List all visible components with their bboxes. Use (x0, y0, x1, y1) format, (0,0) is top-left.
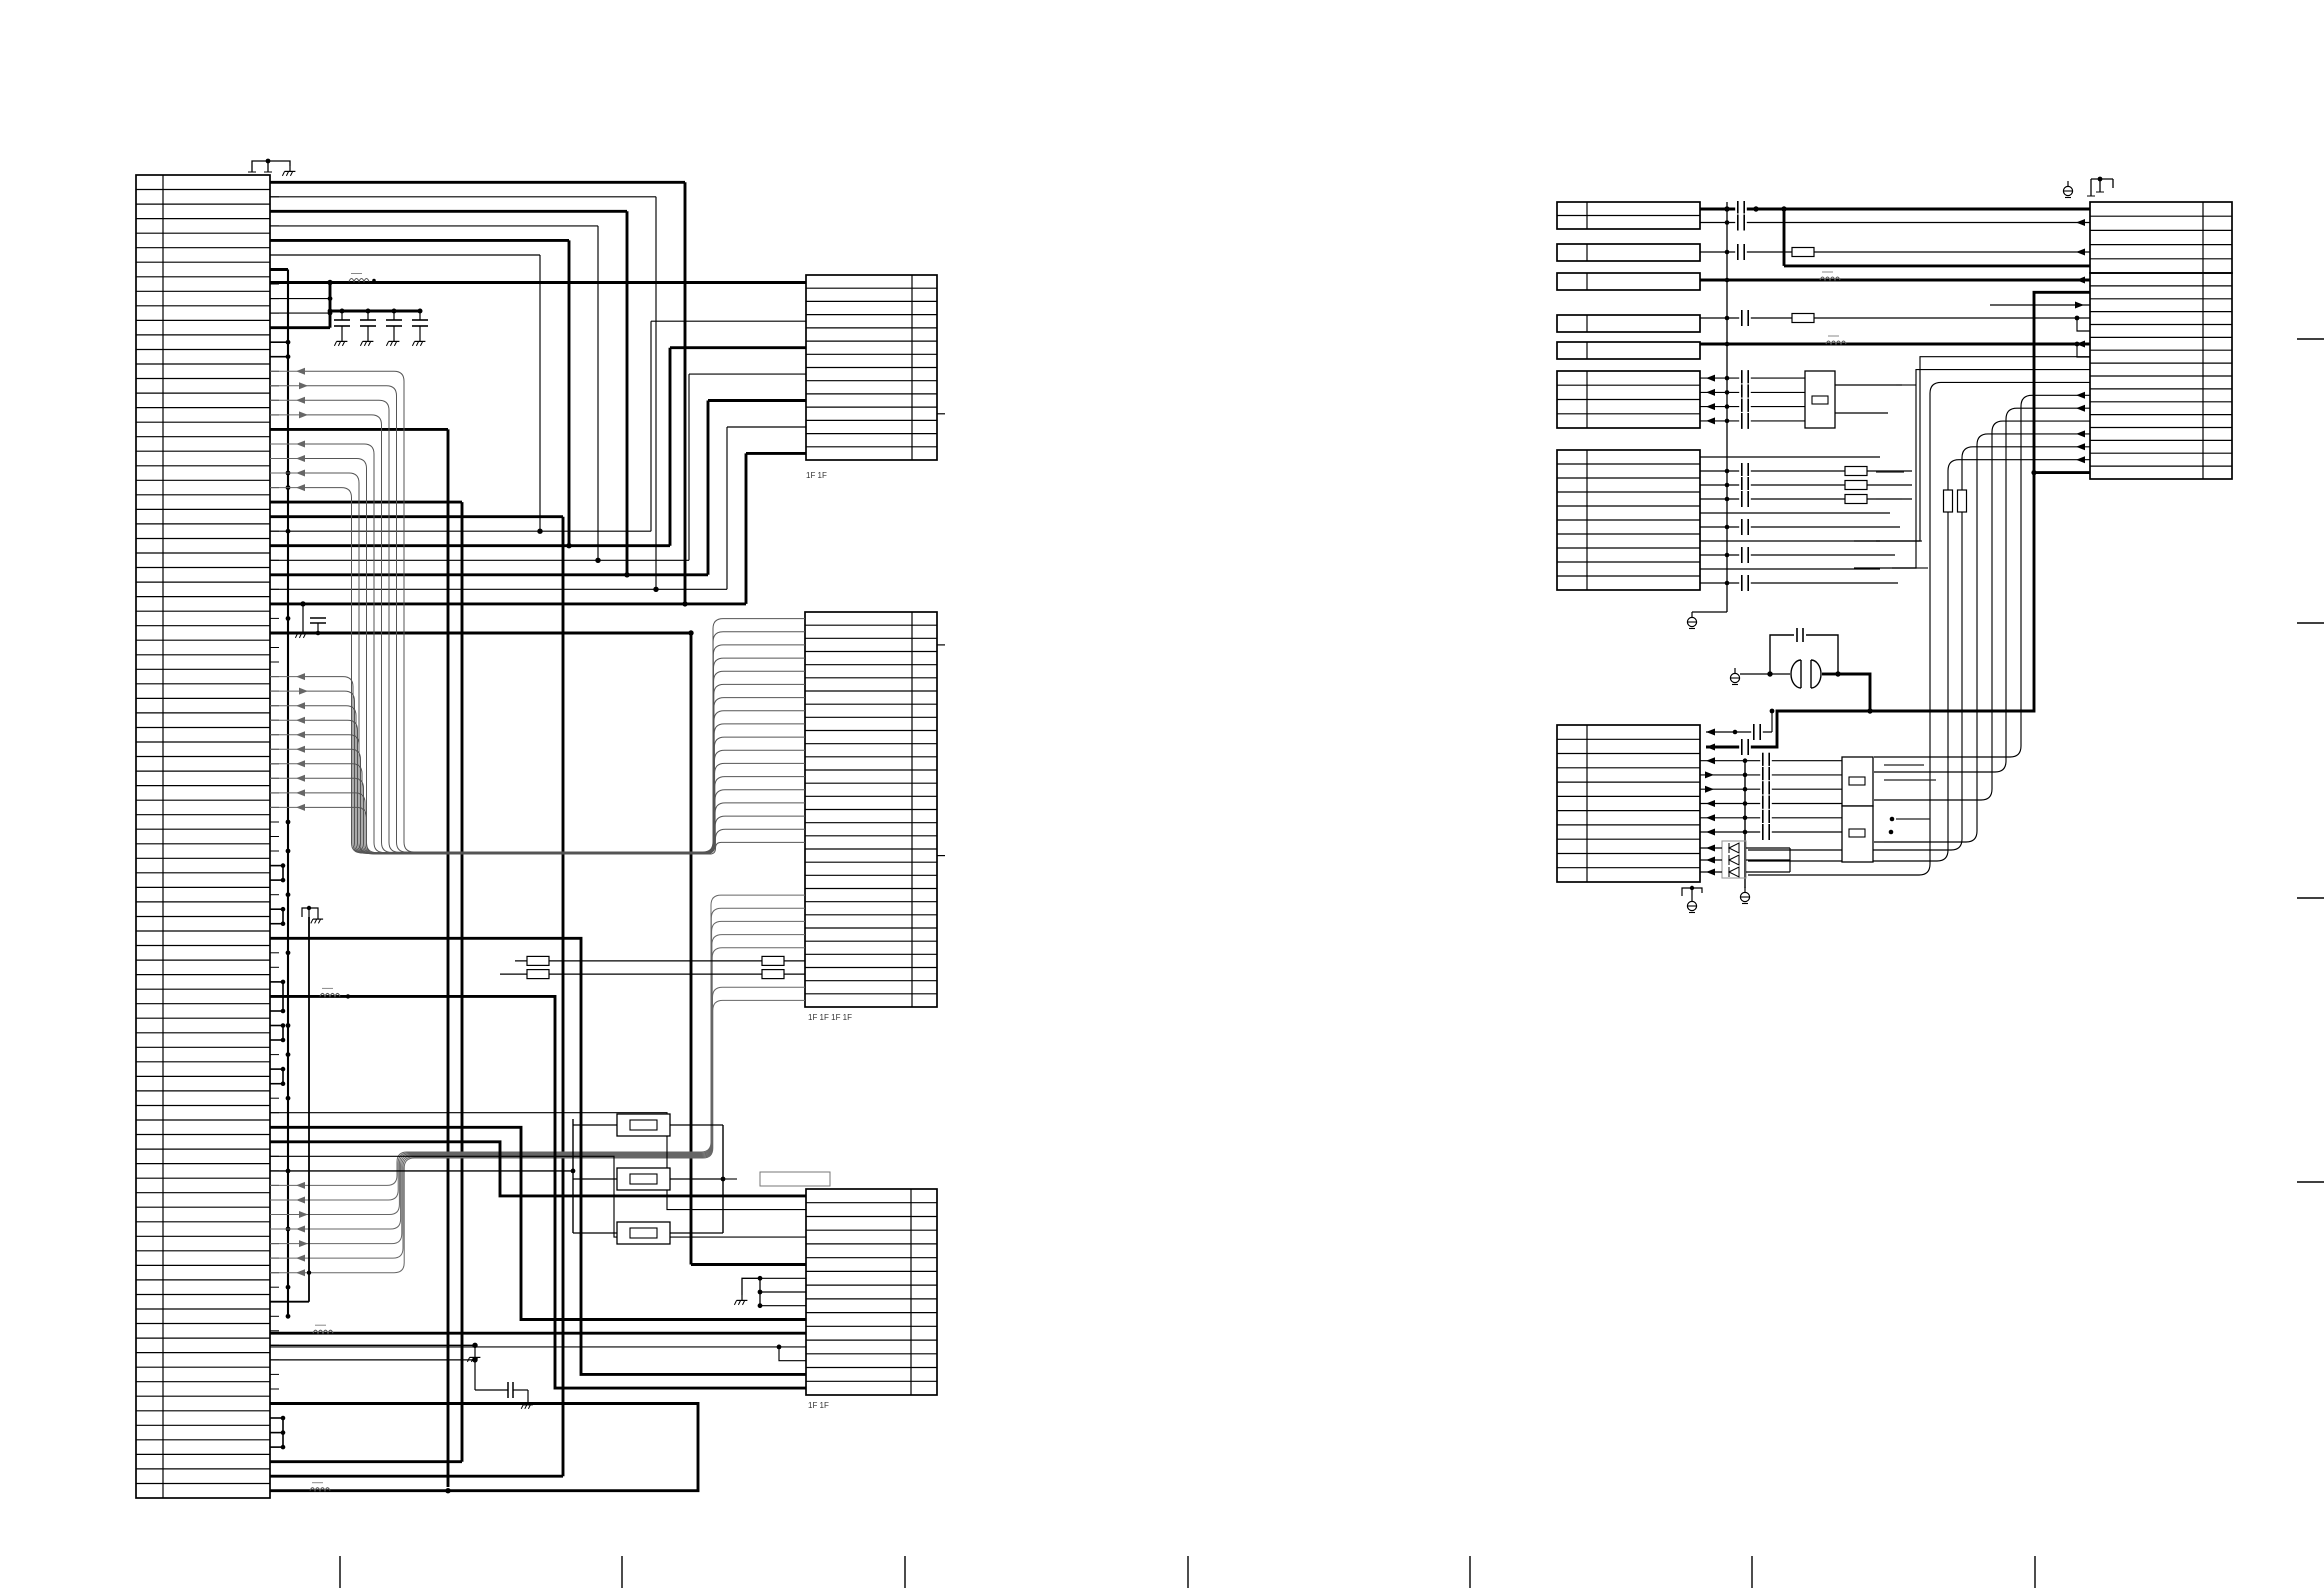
svg-text:1F 1F 1F 1F: 1F 1F 1F 1F (808, 1013, 852, 1022)
svg-text:1F 1F: 1F 1F (806, 471, 827, 480)
svg-text:1F 1F: 1F 1F (808, 1401, 829, 1410)
